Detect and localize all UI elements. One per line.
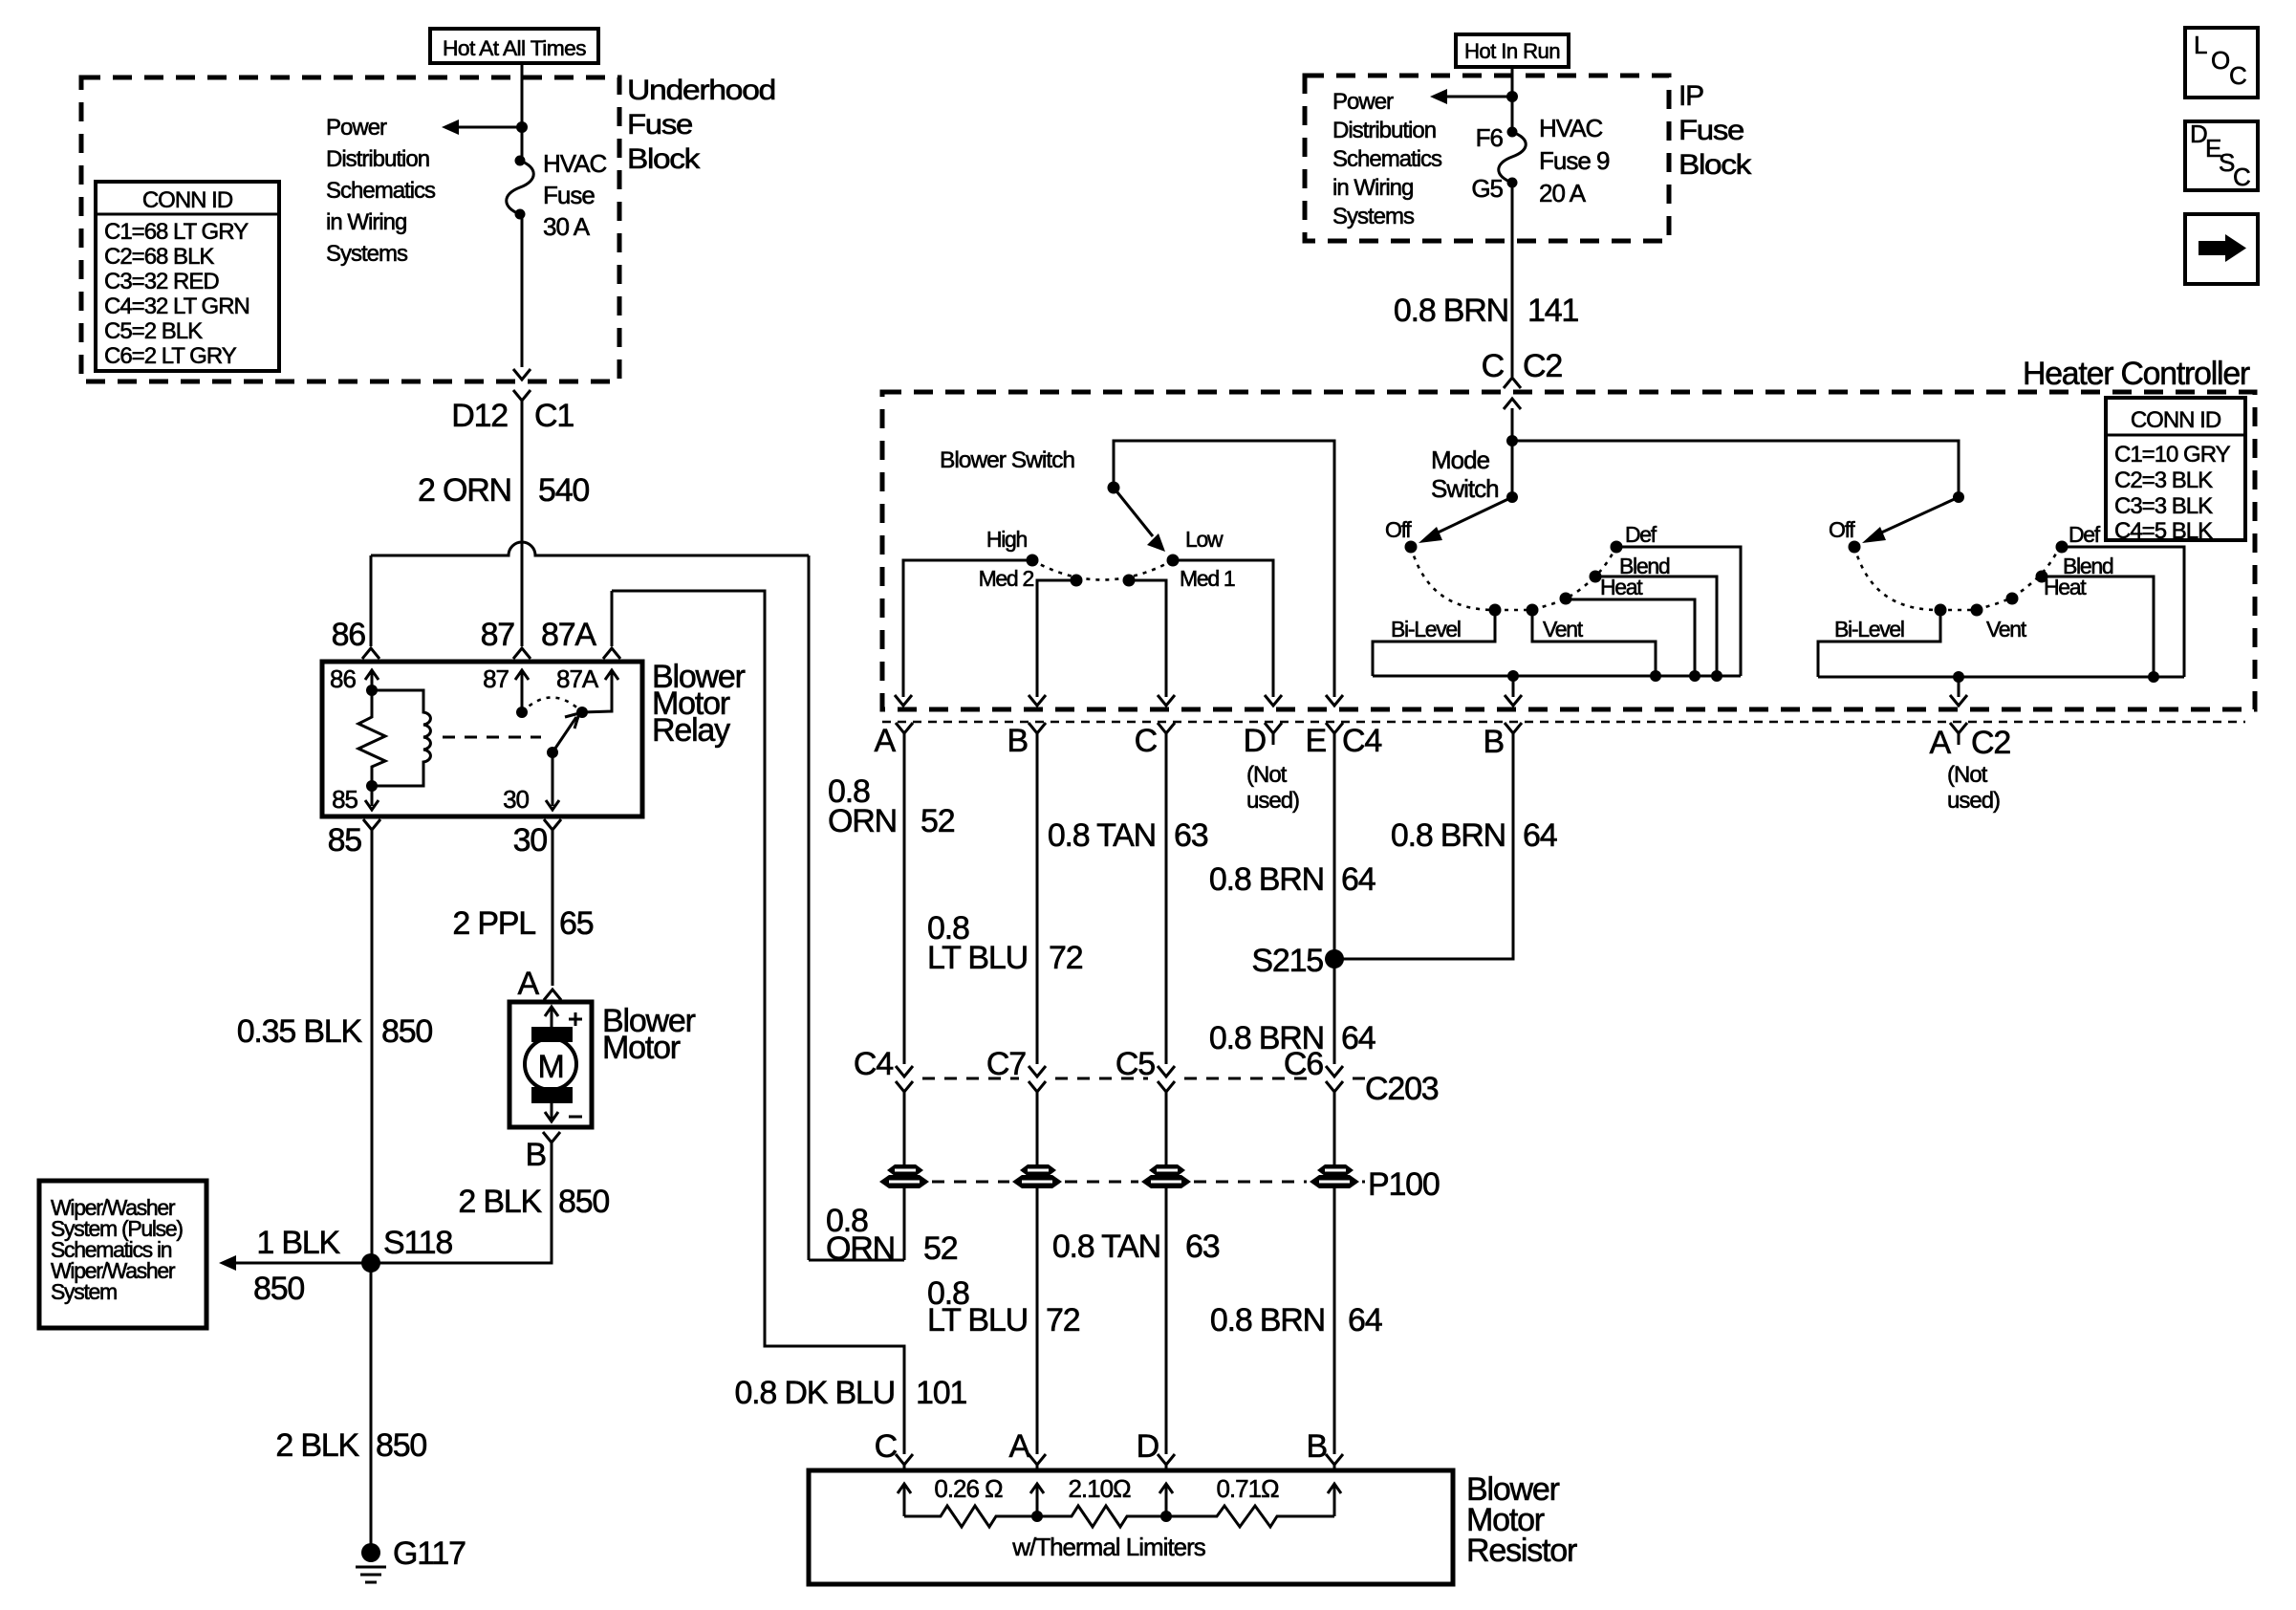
reference box: Wiper/Washer System: [39, 1181, 206, 1328]
svg-text:2 ORN: 2 ORN: [418, 472, 511, 509]
svg-text:C2: C2: [1523, 348, 1562, 384]
relay contact 87: [516, 707, 528, 718]
left bus junction nodes: [1507, 670, 1519, 682]
wire 850: S118 to G117: [370, 1263, 373, 1547]
wire 850: motor B to S118: [371, 1145, 552, 1263]
svg-text:Fuse: Fuse: [543, 181, 595, 209]
wire 101 path: 87A to blower motor resistor pin C: [612, 591, 904, 1454]
svg-text:86: 86: [332, 617, 366, 653]
wire 52: C203 to P100: [903, 1092, 906, 1164]
svg-text:0.8 BRN: 0.8 BRN: [1209, 861, 1324, 898]
power tag: Hot In Run box: [1456, 34, 1569, 67]
svg-text:Fuse 9: Fuse 9: [1539, 146, 1610, 175]
wire: Med 2 to pin B: [1037, 580, 1076, 697]
connector C203 fork (column C): [1158, 1081, 1175, 1092]
svg-text:64: 64: [1341, 1020, 1375, 1056]
resistor element 0.71 ohm: [1166, 1506, 1334, 1527]
svg-text:Heater Controller: Heater Controller: [2023, 356, 2250, 392]
connector C2 entry arrow into heater controller: [1504, 399, 1521, 409]
svg-text:A: A: [1930, 725, 1952, 761]
svg-text:Bi-Level: Bi-Level: [1391, 617, 1461, 642]
resistor internal pin arrows C/A/D/B: [898, 1484, 911, 1516]
resistor pin A fork: [1029, 1454, 1046, 1470]
svg-text:w/Thermal Limiters: w/Thermal Limiters: [1011, 1533, 1206, 1561]
wire 850: relay 85 to S118: [371, 841, 374, 1263]
relay coil L1: [372, 690, 430, 786]
wire: 86 branch drop: [370, 555, 373, 646]
pin D fork (C4), not used: [1265, 723, 1282, 745]
svg-text:Vent: Vent: [1986, 617, 2027, 642]
svg-text:C6=2 LT GRY: C6=2 LT GRY: [104, 343, 237, 369]
svg-text:0.8 BRN: 0.8 BRN: [1391, 817, 1505, 854]
right bus junction nodes: [1953, 671, 1964, 683]
motor armature M: [525, 1038, 576, 1090]
wire: fuse output down to C1: [521, 214, 524, 367]
svg-text:C203: C203: [1365, 1071, 1439, 1107]
ground G117: [361, 1543, 380, 1562]
svg-text:63: 63: [1174, 817, 1208, 854]
wire 52: column A, heater pin A to C203: [903, 733, 906, 1064]
relay node: coil top: [366, 685, 378, 696]
relay mechanical link (dashed): [443, 736, 541, 739]
svg-text:Vent: Vent: [1543, 617, 1584, 642]
right Bi-Level wire: [1818, 610, 1940, 677]
wire: arrow to Power Distribution Schematics: [457, 126, 522, 129]
svg-text:G117: G117: [393, 1535, 466, 1572]
svg-text:P100: P100: [1368, 1166, 1440, 1203]
splice S215: [1325, 949, 1344, 968]
svg-text:C: C: [1135, 723, 1158, 759]
svg-text:52: 52: [923, 1230, 958, 1267]
Heater Controller dashed outline: [882, 392, 2255, 709]
wire 141: fuse output down to heater controller: [1511, 183, 1514, 377]
svg-text:30: 30: [503, 785, 529, 814]
resistor R1 assembly: Blower Motor Resistor box: [809, 1470, 1453, 1584]
svg-text:C2=68 BLK: C2=68 BLK: [104, 244, 214, 270]
svg-text:72: 72: [1049, 940, 1083, 976]
grommet P100 (column E) and P100 label: [1317, 1164, 1354, 1176]
wire 72: C203 to P100: [1036, 1092, 1039, 1164]
wire: mode switch feed: [1511, 408, 1514, 497]
svg-text:2.10Ω: 2.10Ω: [1068, 1474, 1131, 1503]
svg-text:D: D: [1137, 1428, 1159, 1465]
svg-text:65: 65: [559, 905, 594, 942]
relay internal pin arrow 86: [365, 670, 379, 690]
svg-text:LT BLU: LT BLU: [927, 1302, 1028, 1338]
svg-text:HVAC: HVAC: [1539, 114, 1603, 142]
svg-text:Med 1: Med 1: [1180, 566, 1235, 591]
svg-text:Distribution: Distribution: [326, 146, 429, 172]
pin A fork (C2 right), not used: [1950, 723, 1967, 745]
svg-text:2 PPL: 2 PPL: [452, 905, 535, 942]
connector C203 arrow (C4 cavity): [896, 1066, 913, 1077]
svg-text:63: 63: [1185, 1229, 1220, 1265]
blower switch feed: pin E riser and pivot: [1114, 441, 1334, 697]
svg-text:O: O: [2211, 46, 2229, 75]
svg-text:1 BLK: 1 BLK: [256, 1225, 340, 1261]
wire: High to pin A: [903, 560, 1032, 697]
svg-text:used): used): [1947, 788, 2000, 814]
CONN ID table (underhood): [96, 182, 279, 371]
left mode bus: [1373, 675, 1741, 678]
connector C203 arrow (C7 cavity): [1029, 1066, 1046, 1077]
svg-text:C1=68 LT GRY: C1=68 LT GRY: [104, 219, 249, 245]
relay resistor (parallel): [358, 690, 385, 786]
svg-text:B: B: [1007, 723, 1028, 759]
wire: battery feed from Hot At All Times: [521, 63, 524, 161]
svg-text:Systems: Systems: [1332, 204, 1415, 229]
svg-text:C2=3 BLK: C2=3 BLK: [2114, 468, 2213, 493]
node: blower wiper pivot: [1108, 482, 1120, 494]
svg-text:Motor: Motor: [602, 1030, 681, 1066]
svg-text:Schematics: Schematics: [1332, 146, 1442, 172]
svg-text:Systems: Systems: [326, 241, 408, 267]
svg-text:850: 850: [558, 1184, 609, 1220]
svg-text:C: C: [1482, 348, 1505, 384]
svg-text:0.8 BRN: 0.8 BRN: [1210, 1302, 1325, 1338]
pin 87 connector chevron: [513, 648, 531, 659]
svg-text:850: 850: [381, 1013, 432, 1050]
wire 52: bottom jog to column A: [809, 1259, 904, 1262]
svg-text:Def: Def: [1625, 522, 1657, 547]
relay internal pin arrow 30: [546, 752, 559, 810]
svg-text:30 A: 30 A: [543, 212, 591, 241]
connector C1: arrow into fuse block edge: [513, 369, 531, 380]
wire 850: to wiper/washer system (arrow): [234, 1262, 371, 1265]
motor internal pin arrow B and -: [545, 1103, 558, 1121]
svg-text:64: 64: [1341, 861, 1375, 898]
svg-text:System: System: [51, 1279, 117, 1304]
svg-text:0.71Ω: 0.71Ω: [1216, 1474, 1279, 1503]
svg-text:LT BLU: LT BLU: [927, 940, 1028, 976]
CONN ID table (heater controller): [2106, 398, 2245, 540]
connector line below heater controller: [882, 721, 2245, 724]
motor internal pin arrow A and +: [545, 1007, 558, 1029]
svg-text:Schematics: Schematics: [326, 178, 436, 204]
svg-text:C4: C4: [1342, 723, 1381, 759]
svg-text:0.8 TAN: 0.8 TAN: [1048, 817, 1156, 854]
relay contact 87A: [576, 707, 588, 718]
svg-text:Hot In Run: Hot In Run: [1464, 39, 1560, 63]
svg-text:Block: Block: [627, 143, 701, 175]
wire 63: P100 to resistor pin D: [1165, 1188, 1168, 1454]
svg-text:Hot At All Times: Hot At All Times: [443, 36, 587, 60]
relay node: coil bottom: [366, 780, 378, 792]
wire 64: heater pin B branch to S215: [1334, 733, 1513, 959]
resistor rail junction nodes: [1031, 1511, 1043, 1522]
svg-text:C7: C7: [986, 1046, 1026, 1082]
wire 72: P100 to resistor pin A: [1036, 1188, 1039, 1454]
left Blend wire: [1595, 577, 1717, 676]
wire 72: column B, heater pin B to C203: [1036, 733, 1039, 1064]
svg-text:2 BLK: 2 BLK: [458, 1184, 542, 1220]
connector C203 arrow (C5 cavity): [1158, 1066, 1175, 1077]
Underhood Fuse Block dashed outline: [81, 77, 619, 381]
pin B fork (C4): [1029, 723, 1046, 733]
pin E arrow: [1326, 695, 1343, 706]
right mode switch: contact arc (dotted): [1854, 547, 2060, 610]
svg-text:Fuse: Fuse: [1679, 115, 1744, 146]
svg-text:Blower Switch: Blower Switch: [940, 447, 1074, 473]
left Def wire: [1616, 547, 1741, 676]
svg-text:52: 52: [921, 803, 955, 839]
relay internal pin arrow 87: [515, 670, 529, 712]
connector C203 fork (column E) and C203 label: [1326, 1081, 1343, 1092]
grommet P100 (column B): [1020, 1164, 1056, 1176]
right mode bus: [1818, 676, 2184, 679]
left mode switch: contact arc (dotted): [1411, 547, 1616, 610]
wire 64: C203 to P100: [1333, 1092, 1336, 1164]
relay internal pin arrow 85: [365, 786, 379, 810]
resistor element 2.10 ohm: [1037, 1506, 1166, 1527]
node: feed junction (IP): [1506, 91, 1518, 102]
power tag: Hot At All Times box: [430, 29, 598, 63]
wire: right mode output to pin A: [1958, 677, 1960, 697]
svg-text:B: B: [526, 1137, 546, 1173]
svg-text:C2: C2: [1971, 725, 2010, 761]
connector C2 fork at heater controller (pin C): [1504, 378, 1521, 388]
svg-text:2 BLK: 2 BLK: [275, 1427, 359, 1464]
svg-text:ORN: ORN: [826, 1230, 895, 1267]
pin A fork (C4): [896, 723, 913, 733]
wire: Med 1 to pin C: [1129, 580, 1166, 697]
svg-text:Blend: Blend: [1619, 554, 1670, 578]
svg-text:S118: S118: [383, 1225, 452, 1261]
relay U1: Blower Motor Relay box: [322, 662, 642, 816]
resistor pin D fork: [1158, 1454, 1175, 1470]
svg-text:64: 64: [1523, 817, 1557, 854]
svg-text:C5: C5: [1116, 1046, 1155, 1082]
svg-text:D: D: [1244, 723, 1266, 759]
blower motor pin B fork: [543, 1132, 560, 1154]
svg-text:IP: IP: [1679, 80, 1703, 112]
svg-text:0.35 BLK: 0.35 BLK: [237, 1013, 363, 1050]
wire: left mode output to pin B: [1512, 676, 1515, 697]
svg-text:Underhood: Underhood: [627, 75, 775, 106]
svg-text:(Not: (Not: [1246, 762, 1288, 788]
svg-text:850: 850: [376, 1427, 426, 1464]
connector C203 fork (column A): [896, 1081, 913, 1092]
svg-text:B: B: [1307, 1428, 1327, 1465]
svg-text:A: A: [518, 966, 540, 1002]
wire: Low to pin D: [1173, 560, 1273, 697]
grommet dashed link line: [932, 1181, 1365, 1184]
blower contacts: High, Med 2, Med 1, Low: [1027, 555, 1039, 567]
blower switch wiper arrow: [1114, 488, 1153, 536]
wire: run feed from Hot In Run: [1511, 67, 1514, 132]
relay common node 30: [547, 747, 558, 758]
svg-text:Block: Block: [1679, 149, 1752, 181]
relay contact arc (dashed): [522, 698, 582, 713]
grommet P100 (column A): [887, 1164, 923, 1176]
IP Fuse Block dashed outline: [1305, 76, 1669, 241]
svg-text:0.26 Ω: 0.26 Ω: [934, 1474, 1003, 1503]
connector C1: female fork, pin D12: [513, 390, 531, 401]
blower switch contact arc (dotted): [1032, 560, 1173, 580]
left mode switch wiper arrow: [1434, 497, 1512, 534]
wire: cross-feed to right mode switch wafer: [1512, 441, 1959, 497]
svg-text:101: 101: [916, 1375, 966, 1411]
wire 63: column C, heater pin C to C203: [1165, 733, 1168, 1064]
node: mode feed branch: [1506, 435, 1518, 446]
svg-text:M: M: [537, 1049, 563, 1085]
icon: next-page arrow box: [2185, 214, 2258, 284]
icon: LOC box: [2185, 28, 2258, 98]
svg-text:used): used): [1246, 788, 1299, 814]
right Def wire: [2062, 547, 2184, 677]
pin B fork (C2 right): [1505, 723, 1522, 733]
svg-text:F6: F6: [1476, 123, 1504, 152]
svg-text:Relay: Relay: [652, 712, 730, 749]
svg-text:ORN: ORN: [828, 803, 897, 839]
right Blend wire: [2042, 577, 2154, 677]
resistor pin B fork: [1326, 1454, 1343, 1470]
svg-text:E: E: [1306, 723, 1327, 759]
svg-text:Mode: Mode: [1431, 446, 1490, 474]
svg-text:C: C: [875, 1428, 898, 1465]
resistor pin C fork: [896, 1454, 913, 1470]
svg-text:Med 2: Med 2: [979, 566, 1034, 591]
wire 540: 2 ORN to relay pin 87: [521, 401, 524, 646]
pin C fork (C4): [1158, 723, 1175, 733]
svg-text:C1: C1: [534, 398, 574, 434]
svg-text:C1=10 GRY: C1=10 GRY: [2114, 442, 2231, 468]
wire 64: P100 to resistor pin B: [1333, 1188, 1336, 1454]
pin 87A connector chevron: [603, 648, 620, 659]
svg-text:0.8 TAN: 0.8 TAN: [1052, 1229, 1160, 1265]
svg-text:C4=5 BLK: C4=5 BLK: [2114, 518, 2213, 544]
svg-text:141: 141: [1527, 293, 1578, 329]
svg-text:30: 30: [513, 822, 548, 859]
svg-text:CONN ID: CONN ID: [2131, 407, 2221, 433]
relay wiper arm with arrowhead: [552, 717, 576, 752]
svg-text:87: 87: [481, 617, 515, 653]
svg-text:C: C: [2229, 61, 2246, 90]
svg-text:D12: D12: [451, 398, 508, 434]
svg-text:85: 85: [332, 785, 357, 814]
wire 52: down leg at right: [808, 555, 811, 1260]
splice S118: [361, 1253, 380, 1273]
svg-text:A: A: [1009, 1428, 1031, 1465]
svg-text:C3=3 BLK: C3=3 BLK: [2114, 493, 2213, 519]
left Heat wire: [1566, 599, 1695, 676]
wire 52: P100 to junction with relay-86 run: [903, 1188, 906, 1260]
grommet P100 (column C): [1149, 1164, 1185, 1176]
svg-text:Bi-Level: Bi-Level: [1834, 617, 1904, 642]
svg-text:B: B: [1484, 724, 1504, 760]
svg-text:85: 85: [328, 822, 362, 859]
svg-text:High: High: [986, 527, 1028, 552]
svg-text:86: 86: [330, 664, 356, 693]
svg-text:C4: C4: [854, 1046, 893, 1082]
svg-text:0.8 BRN: 0.8 BRN: [1394, 293, 1508, 329]
svg-text:72: 72: [1046, 1302, 1080, 1338]
connector C203 dashed line: [922, 1077, 1367, 1080]
left Vent wire: [1532, 610, 1656, 676]
wire 52: horizontal run to relay pin 86 (hops over 540 wire): [371, 542, 809, 555]
svg-text:Low: Low: [1185, 527, 1224, 552]
svg-text:87A: 87A: [556, 664, 599, 693]
wire: 87A riser: [611, 591, 614, 646]
wire 63: C203 to P100: [1165, 1092, 1168, 1164]
svg-text:Blend: Blend: [2063, 554, 2113, 578]
left Bi-Level wire: [1373, 610, 1495, 676]
svg-text:Power: Power: [326, 115, 387, 141]
motor brush top: [531, 1027, 573, 1042]
svg-text:in Wiring: in Wiring: [326, 209, 406, 235]
svg-text:A: A: [875, 723, 897, 759]
svg-text:in Wiring: in Wiring: [1332, 175, 1413, 201]
motor brush bottom: [531, 1087, 573, 1103]
svg-text:87: 87: [483, 664, 509, 693]
svg-text:0.8 DK BLU: 0.8 DK BLU: [734, 1375, 895, 1411]
svg-text:G5: G5: [1471, 174, 1503, 203]
wire: arrow to Power Distribution Schematics (IP): [1445, 96, 1512, 98]
svg-text:Off: Off: [1829, 517, 1855, 542]
svg-text:Fuse: Fuse: [627, 109, 693, 141]
svg-text:S215: S215: [1251, 943, 1323, 979]
right mode contacts: Off, Bi-Level, Vent, Heat, Blend, Def: [1849, 541, 1861, 554]
svg-text:HVAC: HVAC: [543, 149, 607, 178]
svg-text:L: L: [2194, 31, 2207, 59]
node: right wiper pivot: [1953, 491, 1964, 503]
svg-text:C: C: [2233, 163, 2250, 191]
icon: DESC box: [2185, 121, 2258, 190]
svg-text:Resistor: Resistor: [1466, 1533, 1577, 1569]
svg-text:C6: C6: [1284, 1046, 1323, 1082]
connector C203 fork (column B): [1029, 1081, 1046, 1092]
resistor element 0.26 ohm: [904, 1506, 1037, 1527]
svg-text:64: 64: [1348, 1302, 1382, 1338]
svg-text:540: 540: [538, 472, 589, 509]
pin 86 connector chevron: [362, 648, 379, 659]
svg-text:C5=2 BLK: C5=2 BLK: [104, 318, 203, 344]
svg-text:C4=32 LT GRN: C4=32 LT GRN: [104, 294, 249, 319]
svg-text:(Not: (Not: [1947, 762, 1988, 788]
svg-text:Power: Power: [1332, 89, 1394, 115]
svg-text:CONN ID: CONN ID: [142, 187, 233, 213]
svg-text:Switch: Switch: [1431, 474, 1499, 503]
right mode switch wiper arrow: [1877, 497, 1959, 534]
left mode contacts: Off, Bi-Level, Vent, Heat, Blend, Def: [1405, 541, 1418, 554]
svg-text:Distribution: Distribution: [1332, 118, 1436, 143]
svg-text:20 A: 20 A: [1539, 179, 1587, 207]
svg-text:Off: Off: [1385, 517, 1412, 542]
svg-text:850: 850: [253, 1271, 304, 1307]
svg-text:87A: 87A: [541, 617, 596, 653]
pin E fork and C4 label: [1326, 723, 1343, 733]
svg-text:Def: Def: [2069, 522, 2101, 547]
motor M1: Blower Motor box: [509, 1002, 592, 1127]
svg-text:C3=32 RED: C3=32 RED: [104, 269, 219, 294]
relay internal pin arrow 87A: [582, 670, 618, 712]
wire 64: column E, heater pin E to C203: [1333, 733, 1336, 1064]
fuse F1: HVAC Fuse 30 A: [515, 156, 526, 166]
connector C203 arrow (C6 cavity): [1326, 1066, 1343, 1077]
wire 65: relay 30 to blower motor: [552, 841, 554, 986]
node: left wiper pivot: [1506, 491, 1518, 503]
node: feed junction to power distribution: [516, 121, 528, 133]
